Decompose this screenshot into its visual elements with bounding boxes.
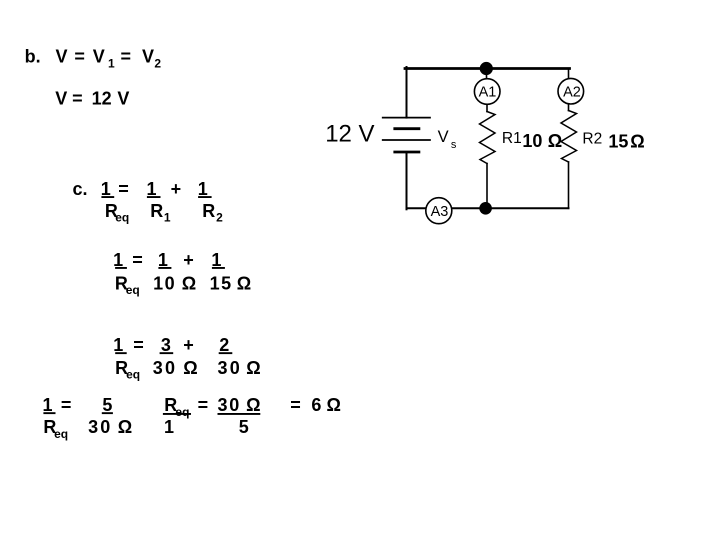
svg-text:=: = <box>74 47 85 67</box>
svg-text:R: R <box>202 201 215 221</box>
svg-text:R2: R2 <box>582 131 602 148</box>
svg-text:3: 3 <box>161 335 171 355</box>
svg-text:A3: A3 <box>431 204 449 220</box>
svg-text:1: 1 <box>164 417 174 437</box>
svg-text:30: 30 <box>218 358 242 378</box>
svg-text:Ω: Ω <box>118 417 132 437</box>
svg-text:V: V <box>117 89 129 109</box>
svg-text:30: 30 <box>218 395 242 415</box>
svg-text:V: V <box>93 47 105 67</box>
svg-text:A1: A1 <box>479 84 497 100</box>
svg-text:R1: R1 <box>502 130 522 147</box>
svg-text:b.: b. <box>25 47 41 67</box>
svg-text:1: 1 <box>158 250 168 270</box>
svg-text:Ω: Ω <box>183 358 197 378</box>
svg-text:=: = <box>198 395 209 415</box>
svg-text:Ω: Ω <box>246 358 260 378</box>
svg-text:Ω: Ω <box>182 273 196 293</box>
svg-text:=: = <box>61 395 72 415</box>
svg-text:s: s <box>451 139 457 151</box>
svg-text:Ω: Ω <box>237 273 251 293</box>
svg-text:eq: eq <box>175 405 189 419</box>
svg-text:c.: c. <box>73 179 88 199</box>
svg-text:=: = <box>132 250 143 270</box>
svg-text:V: V <box>55 89 67 109</box>
svg-text:30: 30 <box>88 417 112 437</box>
svg-text:12 V: 12 V <box>325 121 374 148</box>
svg-text:1: 1 <box>211 250 221 270</box>
svg-text:A2: A2 <box>563 84 581 100</box>
svg-text:R: R <box>150 201 163 221</box>
svg-text:V: V <box>438 128 449 146</box>
svg-text:V: V <box>142 47 154 67</box>
svg-text:1: 1 <box>43 395 53 415</box>
svg-text:30: 30 <box>153 358 177 378</box>
svg-text:10: 10 <box>153 273 176 293</box>
svg-text:1: 1 <box>113 335 123 355</box>
svg-text:1: 1 <box>108 57 115 71</box>
svg-text:6: 6 <box>311 395 321 415</box>
svg-text:10: 10 <box>522 131 542 151</box>
svg-text:eq: eq <box>126 283 140 297</box>
svg-text:1: 1 <box>164 211 171 225</box>
svg-text:+: + <box>183 335 194 355</box>
svg-text:=: = <box>133 335 144 355</box>
svg-text:Ω: Ω <box>246 395 260 415</box>
svg-text:=: = <box>118 179 129 199</box>
svg-text:1: 1 <box>113 250 123 270</box>
svg-text:2: 2 <box>219 335 229 355</box>
svg-text:Ω: Ω <box>548 131 562 151</box>
svg-text:=: = <box>72 89 83 109</box>
svg-text:15: 15 <box>210 273 233 293</box>
svg-text:1: 1 <box>101 179 111 199</box>
svg-text:V: V <box>56 47 68 67</box>
svg-text:eq: eq <box>126 368 140 382</box>
svg-text:5: 5 <box>102 395 112 415</box>
svg-text:2: 2 <box>154 57 161 71</box>
svg-text:5: 5 <box>239 417 249 437</box>
svg-text:eq: eq <box>115 211 129 225</box>
svg-text:=: = <box>290 395 301 415</box>
svg-text:Ω: Ω <box>630 132 644 152</box>
svg-text:+: + <box>183 250 194 270</box>
svg-text:+: + <box>171 179 182 199</box>
svg-text:12: 12 <box>92 89 112 109</box>
svg-text:15: 15 <box>608 132 628 152</box>
svg-text:1: 1 <box>198 179 208 199</box>
svg-text:Ω: Ω <box>327 395 341 415</box>
svg-text:1: 1 <box>147 179 157 199</box>
svg-text:eq: eq <box>54 427 68 441</box>
svg-text:2: 2 <box>216 211 223 225</box>
svg-text:=: = <box>121 47 132 67</box>
